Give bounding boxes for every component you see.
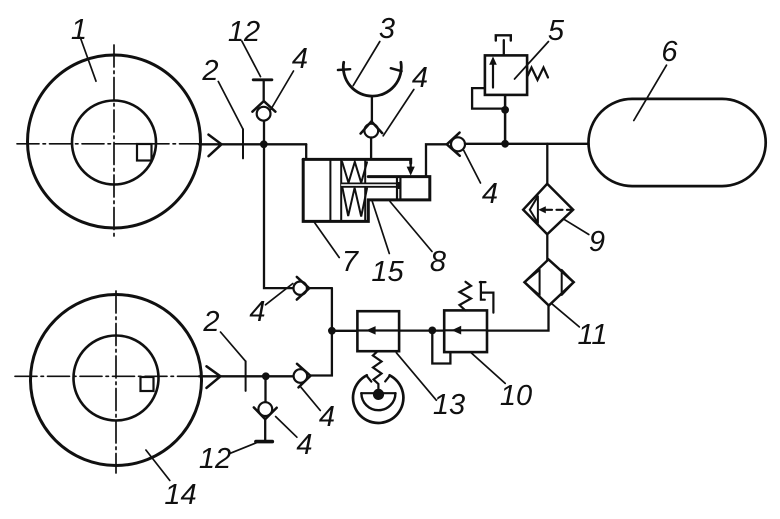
check valve 4 (pilot, right): [451, 137, 465, 151]
node C junction dot: [328, 327, 336, 335]
wire: node E up to relief valve 5: [504, 95, 507, 144]
leader line 6: [634, 65, 667, 120]
foot pedal outer arc: [353, 375, 403, 423]
cup right rim tick: [391, 68, 402, 71]
svg-text:4: 4: [296, 429, 312, 461]
filter 9 inner triangle: [530, 196, 538, 223]
svg-text:9: 9: [589, 226, 605, 258]
leader line 12 top: [242, 41, 261, 77]
svg-text:10: 10: [500, 380, 532, 412]
pedal inner semicircle: [361, 393, 395, 410]
wire: valve 13 to regulator 10: [399, 329, 444, 331]
svg-text:12: 12: [199, 443, 231, 475]
svg-text:6: 6: [661, 36, 678, 68]
wire: wheel 1 to junction A: [199, 143, 306, 145]
valve 5 spring: [527, 68, 548, 81]
wire: node D down to check valve: [264, 376, 266, 402]
leader line 4 mid-left: [266, 284, 293, 305]
pedal chord: [361, 392, 395, 394]
check valve 4 (bottom-mid): [294, 369, 308, 383]
valve 11 diamond: [525, 259, 574, 305]
reservoir port 12 (bottom): [256, 440, 272, 444]
wheel 14 centerline horizontal: [15, 375, 199, 377]
wire: junction A up to check valve 4: [263, 120, 265, 144]
wheel 14 outer circle: [31, 295, 202, 466]
wire: valve 5 to vent cap: [503, 40, 505, 55]
svg-text:5: 5: [548, 15, 565, 47]
wheel 1 inner circle: [72, 101, 156, 185]
piston rod 15: [341, 183, 400, 186]
svg-text:13: 13: [433, 389, 465, 421]
wire: filter 9 to valve 11: [546, 234, 548, 259]
flow arrow into line 2: [209, 135, 222, 157]
node G junction dot: [428, 327, 436, 335]
filter 9 dashed arrow: [538, 206, 546, 213]
pressure regulator 10 box: [444, 310, 487, 352]
leader line 2 bottom: [221, 332, 246, 361]
wire: cup to check valve: [371, 96, 373, 121]
pedal left end tick: [366, 376, 371, 382]
down arrow into cylinder 8: [410, 163, 412, 168]
wheel 1 keyway notch: [137, 144, 152, 161]
valve 5 adjust arrow / leader 5: [515, 42, 549, 80]
leader line 15: [372, 202, 389, 254]
svg-text:11: 11: [577, 319, 607, 351]
valve 13 arrow: [366, 326, 376, 335]
leader line 11: [552, 304, 579, 327]
valve 13 through line: [357, 329, 399, 331]
cylinder 7 top plate: [303, 159, 411, 163]
leader line 4 right: [464, 151, 481, 184]
leader line 12 bottom: [231, 443, 257, 453]
check valve 4 (top, to port 12): [257, 107, 271, 121]
wire: junction A down and right to node B: [264, 144, 332, 288]
wire: wheel 14 to lower branch: [199, 375, 294, 377]
pressure relief valve 5 box: [485, 55, 527, 95]
leader line 4 bottom-mid: [301, 387, 320, 410]
node E junction dot: [501, 140, 509, 148]
leader line 14: [146, 450, 170, 481]
master brake cylinder 7 body: [303, 159, 430, 221]
cylinder internal wall b: [340, 161, 342, 220]
svg-text:4: 4: [292, 43, 308, 75]
leader line 10: [471, 352, 506, 383]
svg-text:4: 4: [482, 178, 498, 210]
wheel 1 centerline horizontal: [17, 143, 199, 145]
hydraulic accumulator 6: [589, 99, 766, 186]
return spring upper zigzag: [342, 162, 367, 183]
wheel 14 centerline vertical: [115, 291, 117, 473]
regulator 10 detent hook: [480, 282, 494, 313]
brake valve 13 box: [357, 311, 399, 351]
leader line 2 top: [218, 82, 243, 130]
wheel 1 outer circle: [28, 55, 201, 228]
svg-text:7: 7: [342, 246, 360, 278]
svg-text:8: 8: [430, 246, 446, 278]
regulator 10 arrow: [452, 326, 462, 335]
component 3 stirrup cup: [343, 62, 401, 96]
wire: tee down to filter 9: [546, 144, 548, 184]
flow arrow into line 2 (bottom): [207, 366, 221, 388]
leader line 8: [390, 202, 432, 252]
check valve 4 (below cup): [364, 124, 378, 138]
wire: check valve to accumulator: [465, 143, 589, 145]
wire: pilot line from cylinder 8 to check valve 4: [426, 144, 447, 176]
cylinder internal wall a: [329, 161, 331, 220]
wire: valve to cylinder 7 top: [370, 138, 372, 159]
reservoir port 12 (top): [253, 78, 272, 81]
leader line 7: [315, 223, 340, 258]
cylinder internal wall c: [364, 161, 366, 220]
connection tick 2 (bottom): [245, 361, 247, 391]
relief valve 5 drain loop: [472, 88, 505, 109]
piston head in cylinder 8: [397, 182, 401, 189]
leader line 9: [564, 219, 589, 234]
node A junction dot: [260, 140, 268, 148]
regulator 10 drain loop: [432, 330, 450, 363]
leader line 4 cup: [383, 90, 414, 136]
leader line 4 top-left: [271, 71, 294, 110]
wheel 1 centerline vertical: [113, 45, 115, 240]
regulator 10 through line: [444, 329, 487, 331]
check valve 4 (bottom, to port 12): [258, 402, 272, 416]
return spring lower zigzag: [342, 188, 367, 217]
valve 11 left triangle: [525, 270, 540, 296]
valve 11 right triangle: [562, 270, 574, 295]
wheel 14 inner circle: [74, 336, 159, 421]
pedal right end tick: [385, 376, 390, 382]
wire: junction A to master cylinder inlet: [305, 144, 307, 158]
svg-text:12: 12: [228, 16, 260, 48]
svg-text:4: 4: [319, 401, 335, 433]
svg-text:15: 15: [371, 256, 404, 288]
svg-text:1: 1: [71, 14, 87, 46]
leader line 3: [353, 42, 380, 86]
wire: node B down to lower branch: [311, 288, 332, 375]
wire: valve 11 down to regulator 10: [487, 306, 548, 331]
check valve 4 (mid-left): [294, 282, 307, 295]
wire: valve to port 12: [263, 81, 265, 102]
vent cap: [496, 35, 511, 40]
leader line 13: [396, 353, 436, 400]
svg-text:4: 4: [412, 62, 428, 94]
svg-text:2: 2: [201, 55, 218, 87]
svg-text:4: 4: [249, 296, 265, 328]
svg-text:3: 3: [379, 13, 395, 45]
connection tick 2 (top): [242, 129, 244, 158]
wire: valve to port 12 (bottom): [264, 419, 266, 440]
leader line 1: [80, 38, 96, 82]
wheel 14 keyway notch: [141, 377, 154, 391]
pedal pivot dot: [373, 389, 384, 400]
svg-text:2: 2: [202, 306, 219, 338]
svg-text:14: 14: [164, 479, 196, 511]
wire: node C to valve 13: [332, 330, 358, 332]
node F junction dot: [501, 106, 509, 114]
cup left rim tick: [338, 68, 350, 71]
valve 5 internal arrow: [492, 64, 494, 88]
regulator 10 spring: [460, 282, 472, 311]
leader line 4 bottom-left: [276, 417, 297, 438]
node D junction dot: [262, 372, 270, 380]
valve 13 pedal spring: [373, 351, 382, 389]
filter 9 diamond: [523, 184, 573, 235]
